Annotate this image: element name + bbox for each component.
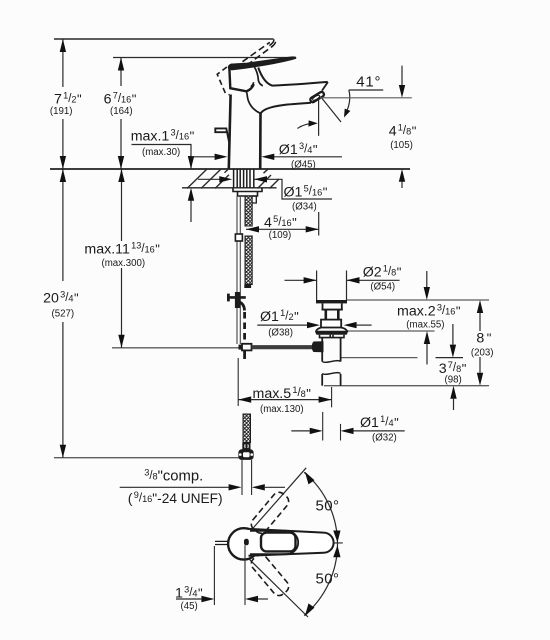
- drain bottom ring: [320, 335, 345, 338]
- svg-text:(105): (105): [390, 140, 413, 151]
- hose top steps: [252, 196, 256, 203]
- drain upper body: [323, 303, 342, 309]
- hose end nut: [238, 449, 253, 460]
- tailpipe: [321, 338, 323, 362]
- svg-text:(max.55): (max.55): [406, 320, 444, 331]
- handle centerline: [296, 542, 343, 544]
- drain nut box: [321, 320, 341, 328]
- wire: hose connection level line (max.11 ref): [112, 347, 240, 349]
- angle tee fitting: [228, 292, 246, 308]
- svg-text:(191): (191): [50, 106, 73, 117]
- dimension max.2 3/16: [426, 271, 428, 287]
- plan lever outline: [249, 529, 334, 556]
- dashed handle position lower: [249, 552, 292, 598]
- tube connector square: [235, 234, 242, 241]
- rod ball joint: [312, 341, 324, 352]
- lever neck: [254, 66, 263, 86]
- faucet body right edge: [259, 113, 262, 169]
- svg-text:41°: 41°: [356, 74, 381, 91]
- lever blade (solid): [228, 57, 296, 70]
- dimension Dia 2 1/8: [285, 279, 317, 281]
- elbow curve to dashed hose: [239, 302, 245, 311]
- svg-text:50°: 50°: [316, 498, 340, 515]
- svg-text:(max.130): (max.130): [260, 404, 304, 415]
- braided hose segment 1: [245, 196, 252, 226]
- dashed raised handle base: [217, 67, 254, 95]
- dash below fitting: [243, 351, 246, 363]
- svg-text:(max.300): (max.300): [102, 258, 146, 269]
- arc mid arrowheads: [333, 531, 340, 543]
- wire: 3 7/8 top short ref line: [436, 357, 464, 359]
- plan handle dot: [244, 539, 249, 546]
- wire: drain flange top level line: [347, 299, 490, 301]
- svg-text:(98): (98): [445, 375, 462, 386]
- 4 1/8 dim arrows: [401, 66, 403, 85]
- dashed handle position upper: [249, 490, 292, 536]
- wire: handle rest level line (6 7/16): [113, 57, 296, 59]
- spout underside curve: [261, 103, 312, 114]
- dimension max.1 3/16 leader: [132, 145, 192, 223]
- svg-text:(Ø54): (Ø54): [370, 281, 395, 292]
- wire: top reference line (7 1/2 level): [54, 38, 274, 40]
- faucet body left edge: [229, 95, 231, 169]
- 41 deg leader: [349, 89, 383, 91]
- dimension 6 7/16" vertical line: [120, 58, 122, 170]
- threaded shank vertical lines: [234, 169, 254, 188]
- plan body circle: [228, 528, 259, 559]
- aerator: [309, 91, 324, 103]
- braided hose segment 2: [245, 236, 252, 285]
- spout top edge: [258, 68, 328, 86]
- dimension max.11 13/16" vertical line: [121, 169, 123, 348]
- wire: slab bottom line: [182, 187, 277, 189]
- dashed raised lever blade: [243, 42, 274, 65]
- rod fitting at crossing: [239, 344, 252, 351]
- svg-text:(45): (45): [181, 601, 198, 612]
- braided hose segment 3: [243, 414, 251, 443]
- pop-up rod knob at rear: [215, 128, 229, 144]
- svg-text:(Ø45): (Ø45): [291, 159, 316, 170]
- pop-up rod horizontal: [252, 345, 318, 349]
- hose end cap: [244, 285, 251, 289]
- wire: tailpipe end line (8 inch bottom): [324, 385, 489, 387]
- svg-text:(Ø32): (Ø32): [372, 432, 397, 443]
- 4 1/8 top ref line: [320, 97, 412, 99]
- arc end arrowheads: [305, 472, 315, 485]
- supply tube (thin vertical pair): [237, 196, 240, 344]
- tailpipe stub: [321, 374, 323, 386]
- stream diagonal line: [321, 97, 342, 123]
- svg-text:(max.30): (max.30): [142, 147, 180, 158]
- svg-text:(527): (527): [52, 308, 75, 319]
- svg-text:(Ø34): (Ø34): [292, 202, 317, 213]
- hatch left of shank: [187, 169, 229, 189]
- dimension 8 inch: [479, 313, 481, 331]
- wire: pop-up rod right level line: [340, 357, 417, 359]
- swing arc: [304, 472, 337, 615]
- handle base block: [229, 67, 253, 92]
- hose end cap 2: [242, 443, 250, 450]
- hatch right of shank: [258, 169, 280, 189]
- drain flange plate: [316, 300, 347, 303]
- svg-text:(164): (164): [110, 106, 133, 117]
- dashed raised lever tip hook: [269, 39, 275, 47]
- plan supply stub: [215, 541, 229, 544]
- plan lever cutout: [261, 533, 296, 552]
- svg-text:50°: 50°: [316, 571, 340, 588]
- dimension 3 7/8: [452, 324, 454, 345]
- dimension 1 3/4 leaders: [176, 598, 201, 600]
- 41 deg arc: [346, 90, 350, 113]
- dimension 7 1/2" / 20 3/4" shared vertical line: [62, 39, 64, 458]
- drain cone flare: [316, 328, 347, 332]
- extension lines below nut: [241, 460, 243, 495]
- shank flange under slab: [233, 188, 262, 196]
- dashed hose going down: [243, 312, 246, 341]
- body/dome junction curve: [246, 91, 260, 113]
- drain extension lines: [316, 271, 318, 301]
- svg-text:(Ø38): (Ø38): [268, 327, 293, 338]
- svg-text:(203): (203): [471, 347, 494, 358]
- stream vertical line: [318, 99, 320, 136]
- swivel arc arrow: [298, 123, 315, 128]
- dimension 1 3/4 extension lines: [213, 546, 215, 605]
- swing line upper: [251, 468, 307, 531]
- wire: bottom reference line (20 3/4 level): [54, 457, 239, 459]
- drain neck bars: [324, 310, 327, 320]
- plan lever collar: [250, 531, 298, 554]
- wire: drain body bottom level line: [347, 330, 435, 332]
- spout tip face: [322, 82, 328, 91]
- swing line lower: [248, 558, 309, 618]
- tailpipe break squiggle: [322, 361, 340, 363]
- svg-text:(109): (109): [269, 230, 292, 241]
- drain washer band: [316, 332, 348, 335]
- svg-text:8": 8": [476, 330, 491, 346]
- wire: countertop line: [50, 168, 410, 170]
